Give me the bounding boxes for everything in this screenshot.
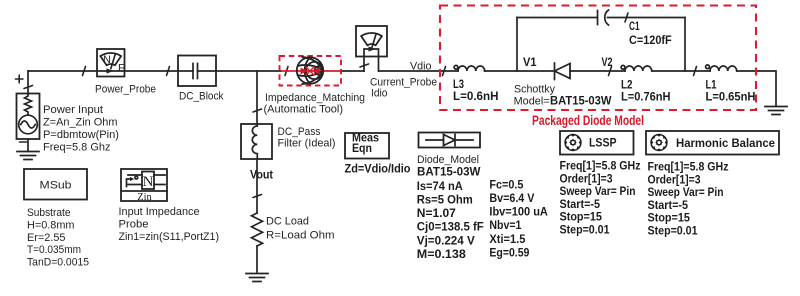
svg-text:Ibv=100 uA: Ibv=100 uA (489, 205, 548, 219)
svg-text:Is=74 nA: Is=74 nA (417, 179, 463, 193)
wire source to ground (27, 139, 29, 152)
red X center (306, 67, 315, 76)
DC_Pass box (241, 124, 272, 159)
ground DC load (246, 274, 268, 282)
source internal resistor (25, 94, 32, 115)
power probe gauge (100, 53, 121, 65)
svg-text:Cj0=138.5 fF: Cj0=138.5 fF (417, 220, 484, 234)
smith chart arcs (306, 62, 323, 79)
svg-text:C1: C1 (629, 19, 640, 33)
wire main left (28, 70, 193, 72)
source sine wave (21, 121, 35, 128)
svg-text:Vj=0.224 V: Vj=0.224 V (417, 233, 476, 247)
svg-text:DC Load: DC Load (266, 216, 309, 228)
Harmonic Balance controller box (646, 131, 779, 155)
svg-text:Zin: Zin (137, 192, 152, 203)
wire dcblock to junction (198, 70, 282, 72)
svg-text:BAT15-03W: BAT15-03W (417, 164, 481, 178)
Zin probe box (121, 169, 167, 201)
current probe gauge (361, 33, 382, 45)
node tick vout vertical (253, 195, 262, 198)
svg-text:(Automatic Tool): (Automatic Tool) (264, 104, 344, 116)
svg-text:N: N (103, 54, 111, 66)
wire dcpass branch top (256, 71, 258, 124)
svg-text:BAT15-03W: BAT15-03W (550, 94, 612, 108)
current probe needle (372, 34, 376, 49)
svg-text:Bv=6.4 V: Bv=6.4 V (489, 191, 535, 205)
svg-text:Zin1=zin(S11,PortZ1): Zin1=zin(S11,PortZ1) (119, 231, 220, 243)
svg-text:Fc=0.5: Fc=0.5 (489, 177, 523, 191)
node tick V2 (609, 67, 612, 76)
wire L3 to diode (485, 70, 555, 72)
svg-text:L=0.65nH: L=0.65nH (706, 90, 756, 104)
svg-text:Probe: Probe (119, 219, 149, 231)
DC_Pass coil (252, 124, 257, 159)
svg-text:L=0.76nH: L=0.76nH (621, 90, 671, 104)
power probe box (97, 49, 125, 77)
current probe box (356, 26, 387, 57)
svg-text:MSub: MSub (40, 180, 72, 192)
impedance matching red wire (281, 70, 340, 72)
current probe arrow (369, 46, 376, 51)
svg-text:N=1.07: N=1.07 (417, 206, 456, 220)
MSub box (24, 169, 87, 200)
inductor L2 (621, 65, 625, 69)
node tick main 2 (167, 67, 170, 76)
svg-text:Power_Probe: Power_Probe (95, 84, 156, 96)
svg-text:V1: V1 (523, 55, 537, 69)
node tick matching input (285, 67, 288, 76)
svg-text:DC_Pass: DC_Pass (278, 126, 321, 138)
svg-text:DC_Block: DC_Block (179, 91, 224, 103)
Zin probe N box (142, 172, 154, 190)
DC_Block capacitor plates (193, 64, 198, 79)
ground source (17, 152, 39, 160)
node tick main 1 (83, 67, 86, 76)
wire probe to L3 (379, 70, 459, 72)
svg-text:Filter (Ideal): Filter (Ideal) (278, 137, 336, 149)
svg-text:T=0.035mm: T=0.035mm (27, 244, 81, 256)
node tick C1 top (625, 13, 628, 22)
svg-text:Rs=5 Ohm: Rs=5 Ohm (417, 193, 473, 207)
svg-text:L=0.6nH: L=0.6nH (453, 89, 499, 103)
svg-text:Packaged Diode Model: Packaged Diode Model (532, 113, 644, 128)
wire C1 top left (517, 17, 598, 19)
red arrow left (301, 68, 309, 75)
svg-text:Freq=5.8 Ghz: Freq=5.8 Ghz (43, 141, 111, 153)
svg-text:Power Input: Power Input (43, 104, 103, 116)
Zin probe divider (121, 190, 167, 192)
inductor L1 (706, 65, 710, 69)
power probe arrow (107, 68, 114, 73)
svg-text:Xti=1.5: Xti=1.5 (489, 232, 525, 246)
svg-text:Eg=0.59: Eg=0.59 (489, 245, 529, 259)
svg-text:Impedance_Matching: Impedance_Matching (265, 92, 365, 104)
svg-text:Er=2.55: Er=2.55 (27, 232, 66, 244)
impedance matching smith circle (297, 57, 323, 83)
svg-text:H=0.8mm: H=0.8mm (27, 219, 75, 231)
DIODENET (440, 6, 787, 128)
svg-text:Zd=Vdio/Idio: Zd=Vdio/Idio (345, 162, 411, 176)
svg-text:N: N (143, 174, 154, 190)
source P1 box (17, 94, 40, 140)
svg-text:V2: V2 (602, 55, 613, 69)
inductor L3 (454, 65, 458, 69)
Zin probe side pins (128, 175, 165, 185)
source minus sign (20, 141, 27, 143)
source plus sign (16, 75, 24, 83)
svg-text:Substrate: Substrate (27, 207, 71, 219)
svg-text:C=120fF: C=120fF (629, 33, 672, 47)
svg-text:P=dbmtow(Pin): P=dbmtow(Pin) (43, 129, 119, 141)
wire load to ground (256, 246, 258, 273)
svg-text:Step=0.01: Step=0.01 (648, 224, 698, 238)
Zin probe arrow (127, 179, 131, 187)
svg-text:R=Load Ohm: R=Load Ohm (266, 230, 335, 242)
diode D1 (554, 63, 556, 80)
power probe needle (111, 54, 115, 69)
svg-text:M=0.138: M=0.138 (417, 247, 466, 261)
svg-text:Nbv=1: Nbv=1 (489, 218, 521, 232)
wire matching to probe (341, 70, 364, 72)
svg-text:Step=0.01: Step=0.01 (560, 223, 610, 237)
impedance matching red dashed box (280, 56, 342, 86)
HB gear icon (650, 134, 667, 151)
svg-text:Vdio: Vdio (410, 61, 432, 73)
node tick dcpass vertical (253, 109, 262, 112)
svg-text:F: F (118, 63, 125, 75)
svg-text:TanD=0.0015: TanD=0.0015 (27, 257, 89, 269)
node tick source vertical (24, 86, 33, 89)
svg-text:Vout: Vout (250, 168, 273, 182)
node tick before L1 (694, 67, 697, 76)
svg-text:Model=: Model= (514, 96, 550, 108)
red arrow right (312, 68, 320, 75)
packaged diode model red dashed box (440, 6, 756, 111)
wire C1 top right (608, 17, 686, 19)
node tick Vdio (443, 67, 446, 76)
wire current probe loop (364, 49, 379, 71)
node tick probe vertical (360, 64, 369, 67)
wire L2 to L1 (653, 70, 711, 72)
capacitor C1 (597, 11, 599, 25)
MIDDLE (241, 26, 437, 282)
wire C1 branch left vertical (516, 18, 518, 72)
LSSP controller box (560, 131, 634, 155)
svg-text:Idio: Idio (371, 88, 388, 100)
svg-text:LSSP: LSSP (589, 136, 617, 150)
LSSP gear icon (564, 134, 581, 151)
source sine circle (19, 115, 38, 134)
ground right (765, 107, 787, 115)
RIGHTSIDE (417, 131, 779, 261)
diode model symbol (426, 135, 473, 146)
DC_Block box (178, 56, 216, 87)
svg-text:Z=An_Zin Ohm: Z=An_Zin Ohm (43, 116, 118, 128)
wire C1 branch right vertical (684, 18, 686, 72)
svg-text:Harmonic Balance: Harmonic Balance (676, 136, 775, 150)
resistor DC Load (252, 213, 263, 246)
svg-text:Input Impedance: Input Impedance (119, 206, 200, 218)
diode model box (419, 133, 481, 148)
wire dcpass to load (256, 159, 258, 213)
LEFTSIDE (16, 49, 224, 269)
MeasEqn box (345, 133, 389, 159)
svg-text:Eqn: Eqn (352, 141, 372, 155)
wire diode to L2 (570, 70, 625, 72)
wire L1 to right ground (737, 71, 776, 106)
wire source vertical (27, 71, 29, 94)
